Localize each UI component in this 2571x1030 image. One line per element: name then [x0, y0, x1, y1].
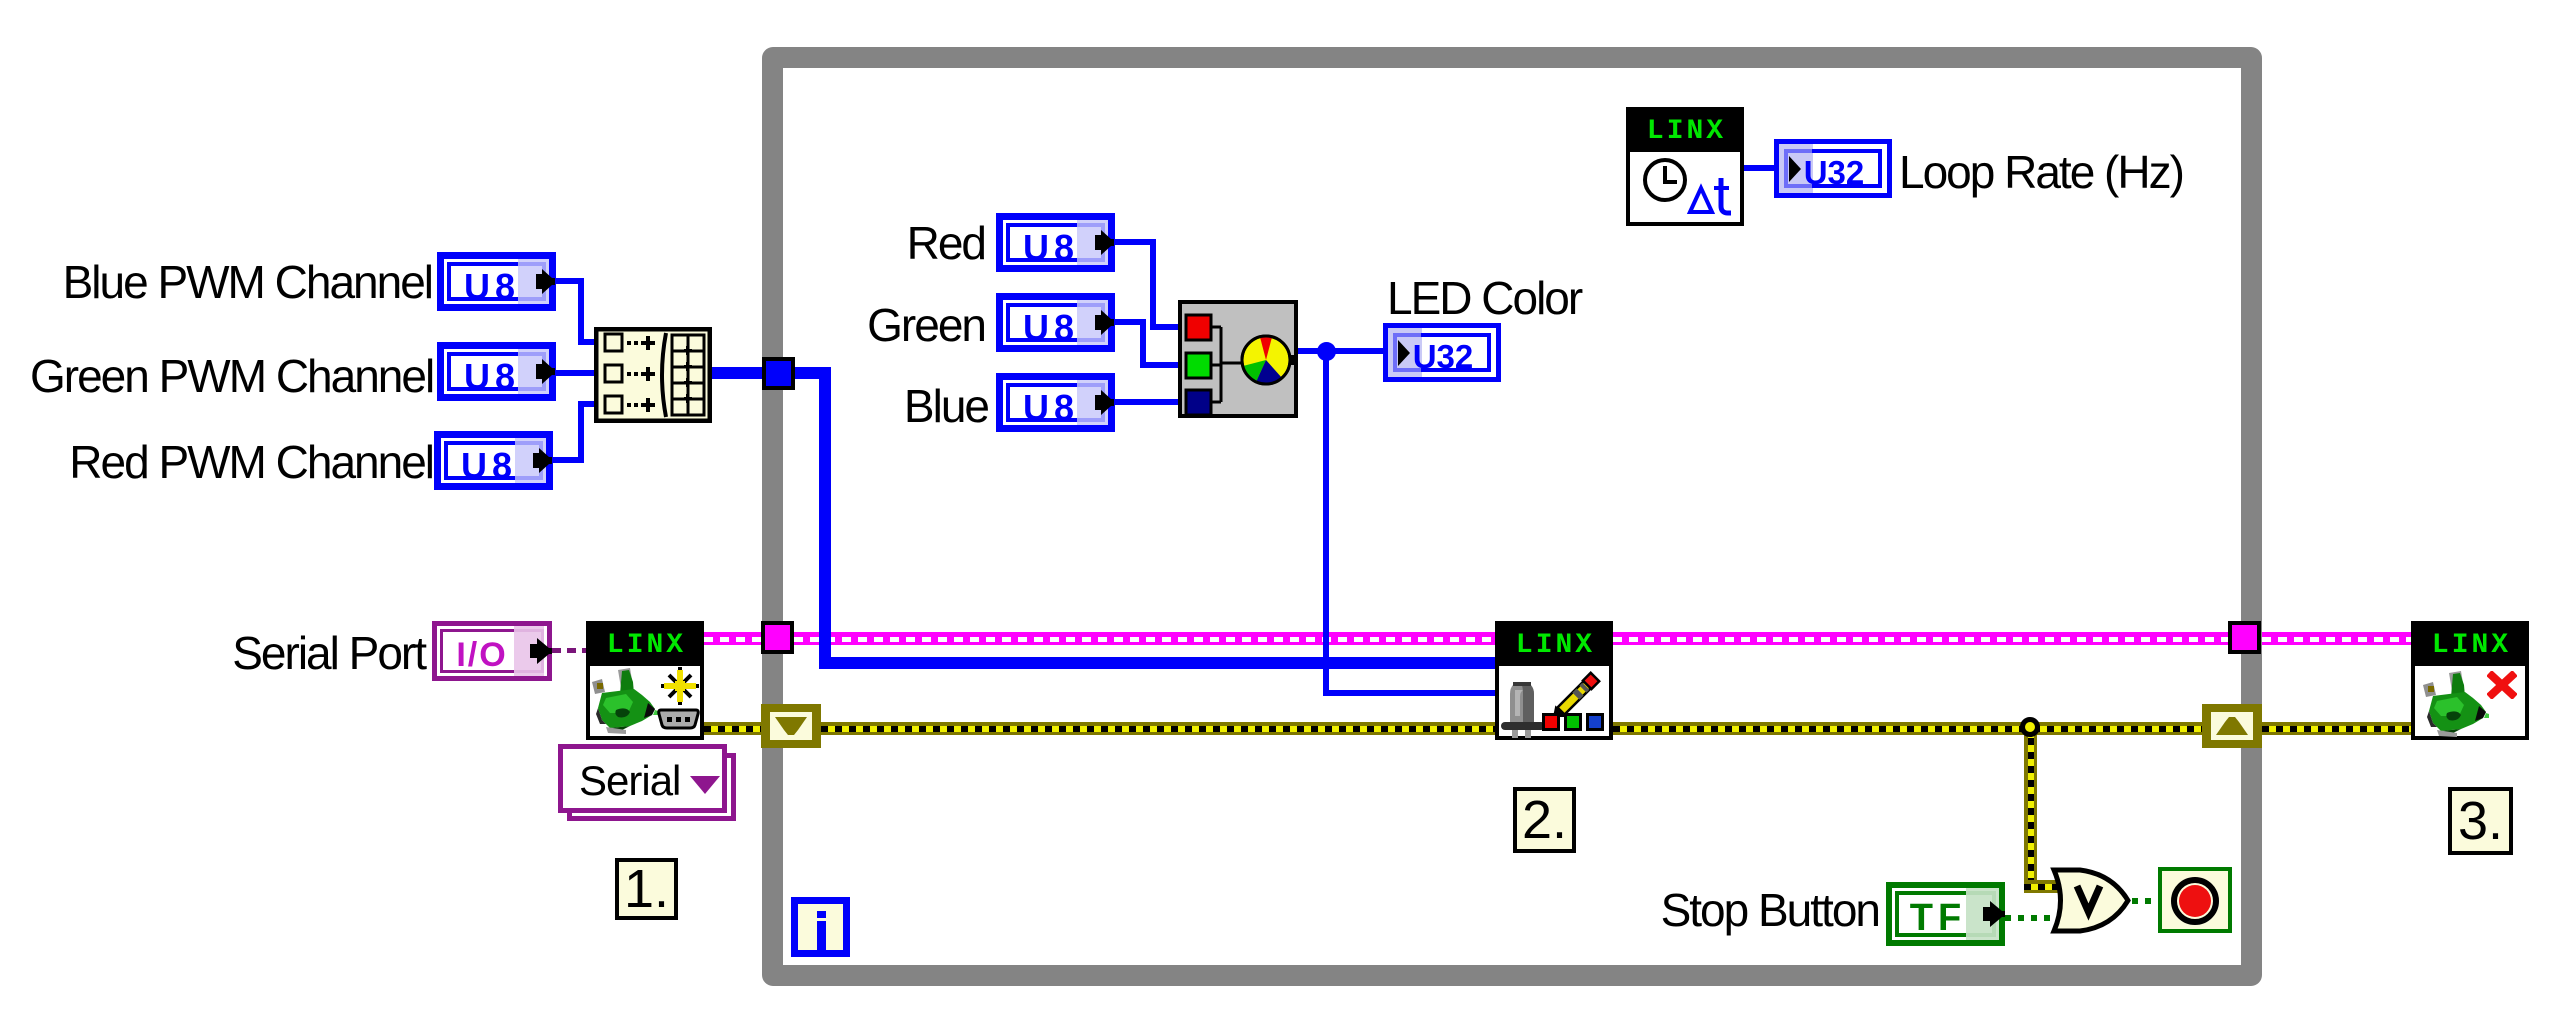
wire: blue Green U8 to cluster (3 segs) [1114, 319, 1146, 325]
rgb dots [1542, 713, 1560, 731]
label: LED Color [1387, 275, 1581, 321]
shift register right (up arrow) [2202, 704, 2262, 748]
shift register left (down arrow) [761, 704, 821, 748]
pencil icon [1553, 665, 1605, 717]
wire: olive LINX resource right tunnel to Close [2262, 722, 2411, 735]
U8 control: Green PWM Channel [437, 342, 556, 401]
wire: olive branch vertical to OR gate [2024, 733, 2037, 885]
wire: blue U8 Blue PWM to build array (3 segs) [556, 278, 584, 284]
wire: magenta serial inside loop right segment [1613, 632, 2229, 645]
wire: green dotted TF to OR gate [2005, 915, 2050, 921]
label: Green PWM Channel [30, 353, 430, 399]
wire: olive branch elbow horizontal [2024, 880, 2066, 893]
wire: blue U8 Red PWM to build array (3 segs) [553, 457, 584, 463]
label: 3. [2448, 787, 2513, 855]
connector icon [657, 707, 700, 732]
wire: blue Red U8 to cluster (3 segs) [1114, 239, 1156, 245]
tunnel: magenta serial right [2228, 621, 2261, 654]
label: Red PWM Channel [33, 439, 433, 485]
label: Red [785, 220, 985, 266]
label: 2. [1513, 787, 1576, 853]
stop terminal [2158, 867, 2232, 933]
label: 1. [615, 858, 678, 920]
U8 control: Green [996, 293, 1115, 352]
red X close icon [2487, 671, 2517, 699]
while loop frame [762, 47, 2262, 986]
LINX Set RGB LED node [1495, 621, 1613, 740]
U8 control: Blue [996, 373, 1115, 432]
tunnel: blue array tunnel on loop left edge [762, 357, 795, 390]
wire: thick blue array horizontal to LINX RGB node [819, 657, 1495, 669]
wire: blue LED color vertical branch [1323, 351, 1329, 696]
wire: blue Blue U8 to cluster [1114, 399, 1178, 405]
U32 indicator: Loop Rate (Hz) [1774, 139, 1892, 198]
label: Serial Port [25, 630, 425, 676]
iteration terminal i [791, 897, 850, 957]
label: Blue [788, 383, 988, 429]
junction on olive wire [2020, 717, 2040, 737]
wire: green dotted OR gate to stop terminal [2132, 898, 2158, 904]
LINX Open node [586, 621, 704, 740]
wire: olive LINX resource shift reg to RGB node [821, 722, 1495, 735]
LINX loop rate timer node [1626, 107, 1744, 226]
wire: thick blue array build-array to tunnel [712, 367, 762, 379]
U8 control: Red [996, 213, 1115, 272]
wire: magenta serial from right tunnel to Close [2262, 632, 2411, 645]
label: Blue PWM Channel [32, 259, 432, 305]
wire: thick blue array vertical [819, 367, 831, 669]
LED icon [1499, 678, 1549, 738]
wire: olive LINX resource RGB node to right shift reg [1613, 722, 2202, 735]
label: Stop Button [1479, 887, 1879, 933]
label: Green [785, 302, 985, 348]
wire: olive LINX resource Open to shift register [704, 722, 761, 735]
TF control: Stop Button [1886, 882, 2005, 946]
wire: magenta serial inside loop left segment [794, 632, 1495, 645]
U8 control: Red PWM Channel [434, 431, 553, 490]
Serial dropdown constant [567, 753, 736, 821]
build array node [594, 327, 712, 423]
U8 control: Blue PWM Channel [437, 252, 556, 311]
U32 indicator: LED Color [1383, 323, 1501, 382]
label: Loop Rate (Hz) [1899, 149, 2183, 195]
wire: blue U8 Green PWM to build array [556, 370, 594, 376]
wire: blue LED color horizontal to LINX RGB node [1323, 690, 1495, 696]
OR gate [2050, 867, 2132, 934]
I/O control: Serial Port [432, 621, 552, 681]
wire: blue LED color to indicator [1290, 348, 1383, 354]
RGB to color cluster node [1178, 300, 1298, 418]
wire: magenta serial from Open to left tunnel [704, 632, 762, 645]
wire: thick blue array tunnel to corner [795, 367, 831, 379]
wire: blue loop rate timer to indicator [1744, 165, 1774, 171]
LINX Close node [2411, 621, 2529, 740]
wire: purple dashed IO to LINX Open [552, 648, 586, 653]
asterisk init icon [661, 667, 699, 705]
tunnel: magenta serial left [761, 621, 794, 654]
junction dot on LED color wire [1317, 342, 1336, 361]
